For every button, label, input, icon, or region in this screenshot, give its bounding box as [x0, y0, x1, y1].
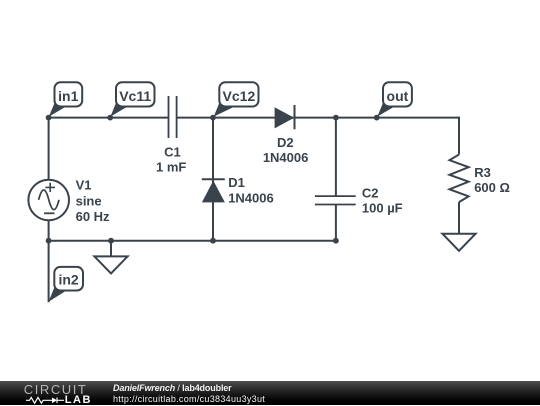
wire: bottom rail from left corner to C2 bottom	[49, 240, 336, 242]
svg-text:V1: V1	[76, 177, 92, 192]
svg-text:1 mF: 1 mF	[156, 159, 186, 174]
label D2 name and value (1N4006)	[263, 135, 309, 165]
junction dot at D1 anode on bottom rail	[210, 238, 216, 244]
svg-text:D1: D1	[228, 175, 245, 190]
svg-text:100 µF: 100 µF	[362, 200, 403, 215]
svg-text:C1: C1	[164, 144, 181, 159]
junction dot at node Vc11	[107, 115, 113, 121]
wire: V1 bottom down to bottom rail and in2 stub	[48, 220, 50, 302]
svg-text:R3: R3	[474, 165, 491, 180]
diode D1	[202, 179, 225, 202]
label C2 name and value (100 uF)	[362, 185, 403, 215]
node label in2	[49, 267, 84, 302]
capacitor C2	[315, 196, 356, 204]
diode D2	[275, 105, 295, 129]
junction dot at ground stem on bottom rail	[108, 238, 114, 244]
wire: top rail from node in1 to C1 left plate	[49, 117, 169, 119]
node label Vc12	[214, 82, 259, 116]
svg-text:in2: in2	[58, 272, 78, 288]
ground symbol under R3	[442, 234, 475, 251]
node label Vc11	[110, 82, 154, 116]
wire: D1 branch vertical from node Vc12 to bottom rail	[212, 118, 214, 241]
label R3 name and value (600 ohm)	[474, 165, 510, 195]
wire: C2 branch from top rail to C2 top plate	[335, 118, 337, 197]
svg-text:1N4006: 1N4006	[228, 190, 274, 205]
label V1 name and value (sine 60 Hz)	[76, 177, 110, 224]
node label out	[377, 82, 412, 116]
junction dot at node out	[374, 115, 380, 121]
wire: right vertical drop from top rail to R3 top	[458, 117, 460, 155]
svg-text:Vc11: Vc11	[119, 88, 151, 104]
junction dot at C2 bottom on bottom rail	[333, 238, 339, 244]
ground symbol on bottom rail	[94, 256, 127, 273]
node label in1	[49, 82, 82, 116]
resistor R3 zigzag body	[450, 155, 469, 203]
capacitor C1	[169, 96, 177, 138]
junction dot bottom-left corner	[46, 238, 52, 244]
wire: mid ground stem on bottom rail	[110, 241, 112, 257]
wire: R3 bottom to ground	[458, 202, 460, 234]
wire: C2 bottom plate to bottom rail	[335, 205, 337, 241]
wire: left vertical from in1 node down to V1 top	[48, 118, 50, 180]
svg-text:600 Ω: 600 Ω	[474, 180, 510, 195]
svg-text:in1: in1	[58, 88, 78, 104]
label D1 name and value (1N4006)	[228, 175, 274, 206]
svg-text:1N4006: 1N4006	[263, 150, 309, 165]
svg-text:out: out	[387, 88, 409, 104]
svg-text:D2: D2	[277, 135, 294, 150]
svg-text:sine: sine	[76, 194, 102, 209]
svg-text:C2: C2	[362, 185, 379, 200]
label C1 name and value (1 mF)	[156, 144, 186, 174]
junction dot at node in1	[46, 115, 52, 121]
wire: top rail from C1 right plate to D2 anode and on to right corner	[177, 117, 459, 119]
footer bar with CircuitLab branding	[0, 381, 540, 405]
junction dot at C2 top on output rail	[333, 115, 339, 121]
voltage source V1 (sine)	[28, 180, 69, 221]
svg-text:Vc12: Vc12	[223, 88, 256, 104]
junction dot at node Vc12	[210, 115, 216, 121]
svg-text:60 Hz: 60 Hz	[76, 209, 110, 224]
